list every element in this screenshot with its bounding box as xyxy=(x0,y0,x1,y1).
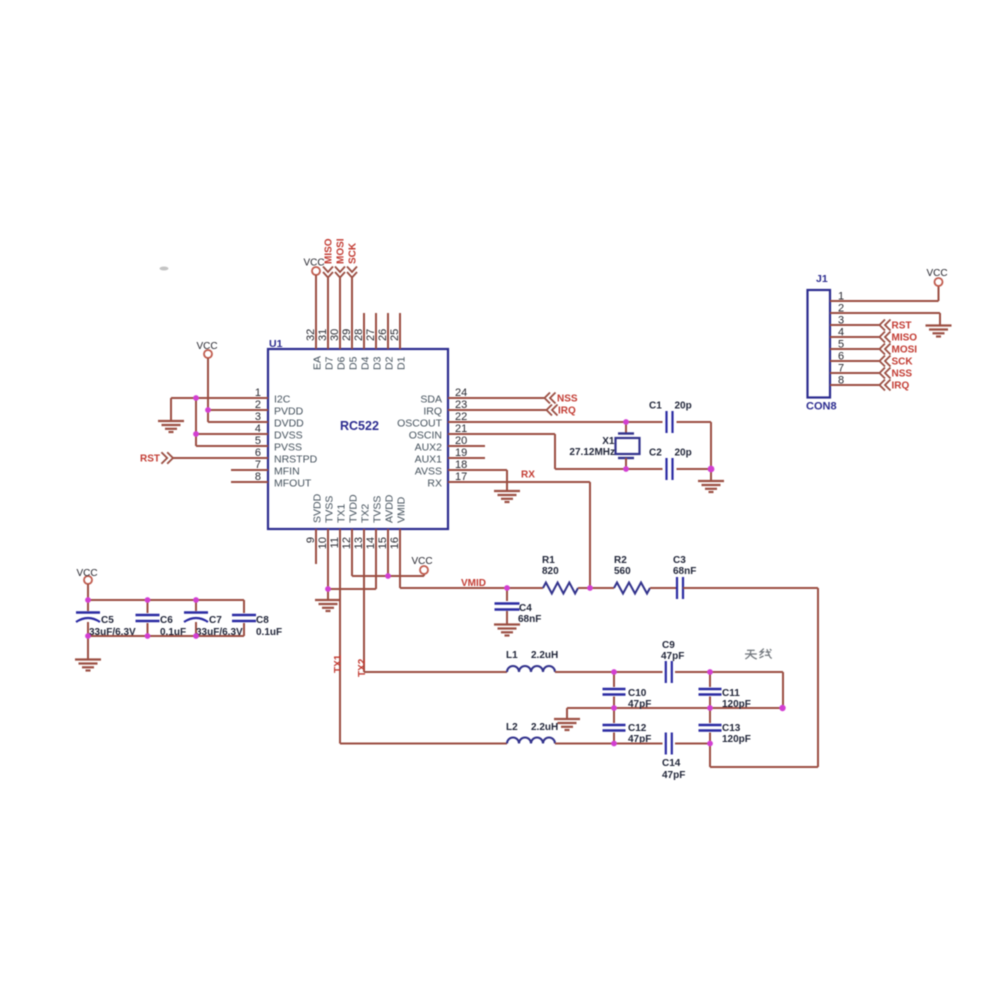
svg-text:J1: J1 xyxy=(816,273,828,285)
svg-text:D5: D5 xyxy=(348,356,360,370)
svg-text:D6: D6 xyxy=(336,356,348,370)
svg-text:68nF: 68nF xyxy=(518,614,541,625)
svg-text:47pF: 47pF xyxy=(662,770,685,781)
svg-text:RST: RST xyxy=(892,321,912,332)
svg-text:SCK: SCK xyxy=(892,357,914,368)
svg-text:C7: C7 xyxy=(209,615,222,626)
svg-text:RX: RX xyxy=(427,478,442,490)
svg-text:C8: C8 xyxy=(256,615,269,626)
svg-text:VCC: VCC xyxy=(196,341,217,352)
svg-text:TX2: TX2 xyxy=(357,658,368,677)
svg-text:MFIN: MFIN xyxy=(274,466,300,478)
svg-text:SCK: SCK xyxy=(348,242,359,264)
svg-text:I2C: I2C xyxy=(274,394,291,406)
svg-text:SVDD: SVDD xyxy=(312,493,324,523)
svg-text:D1: D1 xyxy=(396,356,408,370)
svg-text:PVSS: PVSS xyxy=(274,442,302,454)
svg-text:X1: X1 xyxy=(602,436,615,447)
svg-text:VCC: VCC xyxy=(303,258,324,269)
svg-text:27.12MHz: 27.12MHz xyxy=(569,447,615,458)
svg-text:C2: C2 xyxy=(649,448,662,459)
svg-text:RC522: RC522 xyxy=(340,419,379,433)
svg-text:C12: C12 xyxy=(628,723,647,734)
svg-text:IRQ: IRQ xyxy=(558,406,576,417)
svg-text:47pF: 47pF xyxy=(628,699,651,710)
svg-text:D7: D7 xyxy=(324,356,336,370)
svg-text:C13: C13 xyxy=(722,723,741,734)
svg-text:20p: 20p xyxy=(675,401,692,412)
svg-text:VCC: VCC xyxy=(76,568,97,579)
svg-text:C6: C6 xyxy=(160,615,173,626)
svg-text:C14: C14 xyxy=(662,758,681,769)
svg-text:AVSS: AVSS xyxy=(415,466,442,478)
svg-text:TVSS: TVSS xyxy=(324,496,336,523)
svg-text:C4: C4 xyxy=(519,603,532,614)
svg-text:RX: RX xyxy=(521,470,535,481)
svg-text:C10: C10 xyxy=(628,688,647,699)
svg-text:20p: 20p xyxy=(675,448,692,459)
svg-text:TVDD: TVDD xyxy=(348,494,360,523)
svg-text:AUX2: AUX2 xyxy=(415,442,443,454)
svg-text:D2: D2 xyxy=(384,356,396,370)
svg-text:OSCOUT: OSCOUT xyxy=(397,418,443,430)
svg-text:MOSI: MOSI xyxy=(336,238,347,264)
svg-text:L2: L2 xyxy=(506,722,518,733)
svg-text:C9: C9 xyxy=(662,640,675,651)
svg-text:MISO: MISO xyxy=(324,238,335,264)
svg-text:TX1: TX1 xyxy=(336,504,348,523)
svg-text:MOSI: MOSI xyxy=(892,345,918,356)
svg-text:PVDD: PVDD xyxy=(274,406,304,418)
svg-text:RST: RST xyxy=(140,454,160,465)
svg-text:820: 820 xyxy=(542,566,559,577)
svg-text:U1: U1 xyxy=(269,338,283,350)
svg-text:DVDD: DVDD xyxy=(274,418,304,430)
svg-text:NSS: NSS xyxy=(557,394,578,405)
svg-text:C11: C11 xyxy=(722,688,740,699)
svg-text:TX1: TX1 xyxy=(333,654,344,673)
svg-text:R2: R2 xyxy=(614,555,627,566)
svg-text:EA: EA xyxy=(312,356,324,370)
svg-text:D3: D3 xyxy=(372,356,384,370)
svg-text:R1: R1 xyxy=(542,555,555,566)
svg-text:47pF: 47pF xyxy=(661,651,684,662)
svg-text:2.2uH: 2.2uH xyxy=(531,722,558,733)
svg-text:AVDD: AVDD xyxy=(384,494,396,523)
svg-text:MISO: MISO xyxy=(892,333,918,344)
svg-text:AUX1: AUX1 xyxy=(415,454,443,466)
svg-text:68nF: 68nF xyxy=(673,566,696,577)
svg-text:VMID: VMID xyxy=(396,496,408,523)
svg-text:120pF: 120pF xyxy=(722,699,751,710)
svg-text:IRQ: IRQ xyxy=(423,406,442,418)
svg-text:VCC: VCC xyxy=(926,268,947,279)
svg-text:OSCIN: OSCIN xyxy=(409,430,442,442)
svg-text:IRQ: IRQ xyxy=(892,381,910,392)
svg-text:DVSS: DVSS xyxy=(274,430,303,442)
svg-text:560: 560 xyxy=(614,566,631,577)
svg-text:C5: C5 xyxy=(101,615,114,626)
svg-text:2.2uH: 2.2uH xyxy=(531,650,558,661)
svg-text:120pF: 120pF xyxy=(722,734,751,745)
svg-text:MFOUT: MFOUT xyxy=(274,478,312,490)
svg-text:SDA: SDA xyxy=(420,394,442,406)
svg-text:VCC: VCC xyxy=(411,556,432,567)
svg-text:0.1uF: 0.1uF xyxy=(256,627,282,638)
svg-text:C1: C1 xyxy=(649,401,662,412)
svg-text:NRSTPD: NRSTPD xyxy=(274,454,318,466)
svg-text:TX2: TX2 xyxy=(360,504,372,523)
svg-text:D4: D4 xyxy=(360,356,372,370)
svg-text:L1: L1 xyxy=(506,650,518,661)
svg-text:VMID: VMID xyxy=(461,578,486,589)
svg-text:CON8: CON8 xyxy=(806,401,837,413)
svg-text:TVSS: TVSS xyxy=(372,496,384,523)
svg-text:C3: C3 xyxy=(673,555,686,566)
svg-text:NSS: NSS xyxy=(892,369,913,380)
